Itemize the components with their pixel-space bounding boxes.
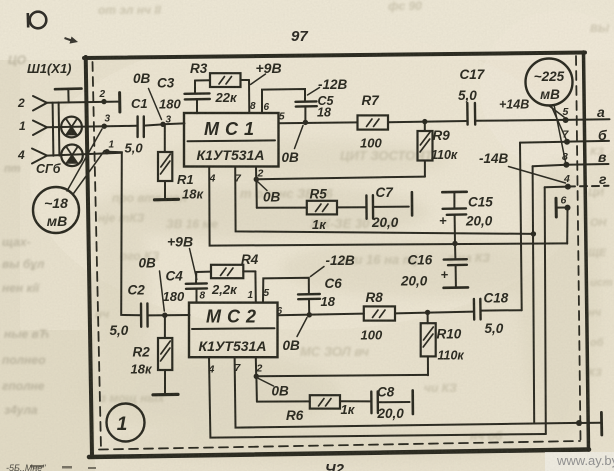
- capacitor C15: [442, 191, 466, 194]
- output node MC1: [303, 120, 308, 125]
- capacitor C18: [473, 299, 476, 320]
- resistor R5 chain: [255, 179, 257, 207]
- pointer to terminal 5: [548, 105, 564, 117]
- input arrow pin 2: [33, 96, 47, 111]
- wire C1 to node 3b: [144, 124, 163, 125]
- terminal 5: [563, 117, 569, 123]
- input arrow pin 1: [33, 121, 47, 136]
- wire terminal7 to C18: [520, 143, 522, 311]
- resistor R9: [424, 122, 426, 131]
- wire terminal6 down to ground bus: [566, 208, 568, 244]
- connector circle lower: [61, 145, 83, 167]
- watermark band: [545, 452, 614, 471]
- node 3: [102, 124, 107, 129]
- annotation circle ~18 mV: [33, 187, 79, 233]
- connector top T-bar: [55, 87, 82, 90]
- capacitor C8: [370, 392, 373, 414]
- MC1 pin2 node: [255, 167, 257, 180]
- output node MC2: [307, 312, 312, 317]
- annotation circle ~225 mV: [526, 59, 573, 106]
- frame right border: [584, 52, 589, 450]
- MC1 pin7 bus: [235, 167, 533, 234]
- MC1 pin4 bus: [209, 167, 567, 246]
- capacitor C16: [454, 244, 456, 259]
- resistor R10: [427, 312, 429, 323]
- small arrow mark: [65, 37, 79, 44]
- ground bar R1: [155, 198, 179, 202]
- wire row 4: [47, 153, 122, 156]
- capacitor C7: [365, 195, 368, 218]
- terminal 7: [520, 141, 567, 144]
- node 2: [101, 99, 106, 104]
- wire node1 to MC2 input column: [107, 152, 141, 316]
- capacitor C2: [140, 304, 143, 327]
- ground bar R2: [153, 393, 178, 397]
- node 3b: [160, 122, 165, 127]
- input arrow pin 4: [32, 149, 47, 164]
- wire C17 to terminal 5: [476, 119, 564, 122]
- wire R8 to C18: [395, 312, 473, 314]
- node R9 top: [422, 119, 427, 124]
- capacitor C4: [186, 282, 207, 285]
- frame top border: [84, 53, 585, 59]
- resistor R7: [358, 115, 389, 129]
- pointer to node 3: [67, 129, 102, 191]
- contact bar row 2: [118, 93, 121, 112]
- MC2 pin4 loop: [209, 357, 546, 437]
- pointer to terminal 7: [551, 105, 566, 139]
- wire MC1 out to R7: [279, 121, 358, 124]
- wire C2 to node: [148, 314, 165, 316]
- node 1: [104, 149, 109, 154]
- capacitor C17: [466, 103, 469, 125]
- terminal 6: [555, 198, 558, 217]
- node R10 top: [425, 310, 430, 315]
- shield dashed bottom: [99, 441, 580, 450]
- page mark Yu glyph top-left: [28, 12, 47, 29]
- terminal 4: [545, 186, 568, 189]
- connector circle upper: [61, 117, 82, 138]
- frame bottom border: [89, 450, 589, 458]
- resistor R3: [195, 79, 210, 81]
- bottom-left specks: [30, 465, 96, 469]
- frame left border: [86, 57, 92, 456]
- resistor R1: [164, 125, 166, 153]
- capacitor C6 loop: [263, 278, 309, 303]
- cable pair line a: [52, 103, 55, 156]
- capacitor C3: [185, 92, 210, 95]
- capacitor C5 loop: [262, 89, 305, 113]
- wire node3b to MC1: [163, 122, 185, 125]
- wire pin2 to R9 bottom: [256, 177, 425, 180]
- shield dashed right: [576, 56, 581, 440]
- resistor R8: [364, 306, 395, 320]
- cable pair line b: [58, 102, 61, 155]
- pointer to node 1: [74, 151, 105, 194]
- sheet circle 1: [107, 404, 145, 442]
- input node MC2: [162, 313, 167, 318]
- resistor R2: [164, 315, 166, 338]
- capacitor C1: [136, 117, 138, 138]
- wire MC2 out to R8: [278, 314, 364, 316]
- MC2 pin2 node: [255, 357, 257, 376]
- wire R7 to C17: [388, 121, 467, 122]
- wire pin2 to R10 bottom: [256, 375, 428, 376]
- wire terminal8 feedback column: [533, 166, 535, 423]
- pointer to terminal 8: [554, 105, 566, 162]
- terminal 8: [533, 165, 567, 166]
- junction pin7 bus / terminal8 column: [531, 231, 536, 236]
- wire row 1: [47, 126, 137, 128]
- shield dashed left: [93, 62, 102, 449]
- MC2 pin7 loop: [235, 357, 579, 427]
- resistor R4: [196, 271, 211, 273]
- bottom-right terminal: [576, 420, 582, 426]
- wire terminal4 feedback column: [545, 187, 546, 434]
- op-amp U2 MC2 box: [189, 303, 278, 358]
- op-amp U1 MC1 box: [184, 113, 279, 167]
- wire row 2: [47, 102, 118, 103]
- resistor R6 chain: [255, 376, 258, 401]
